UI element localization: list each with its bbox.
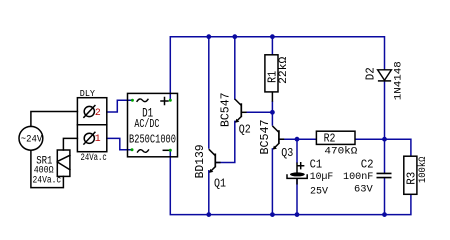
- svg-text:22kΩ: 22kΩ: [278, 56, 290, 84]
- svg-text:R2: R2: [324, 132, 336, 146]
- svg-text:25V: 25V: [310, 185, 329, 197]
- svg-text:BC547: BC547: [259, 120, 272, 155]
- svg-text:C2: C2: [361, 158, 374, 172]
- svg-text:100kΩ: 100kΩ: [417, 157, 428, 183]
- svg-text:2: 2: [95, 107, 101, 118]
- svg-text:D2: D2: [363, 67, 377, 80]
- svg-text:470kΩ: 470kΩ: [324, 145, 357, 157]
- svg-text:AC/DC: AC/DC: [134, 117, 159, 131]
- svg-text:1: 1: [95, 133, 101, 144]
- svg-text:1N4148: 1N4148: [393, 61, 405, 100]
- svg-text:B250C1000: B250C1000: [129, 134, 176, 147]
- svg-text:DLY: DLY: [80, 88, 96, 99]
- svg-text:Q2: Q2: [239, 122, 251, 136]
- svg-text:100nF: 100nF: [343, 171, 373, 183]
- svg-text:Q1: Q1: [214, 176, 226, 190]
- svg-text:10µF: 10µF: [310, 171, 333, 183]
- svg-text:Q3: Q3: [281, 146, 293, 160]
- svg-text:BC547: BC547: [219, 93, 232, 128]
- svg-text:C1: C1: [310, 158, 323, 172]
- svg-text:63V: 63V: [354, 184, 373, 196]
- svg-text:24Va.c: 24Va.c: [33, 175, 62, 186]
- svg-text:~24V: ~24V: [21, 134, 43, 146]
- svg-text:24Va.c: 24Va.c: [81, 152, 107, 163]
- svg-text:BD139: BD139: [194, 144, 207, 178]
